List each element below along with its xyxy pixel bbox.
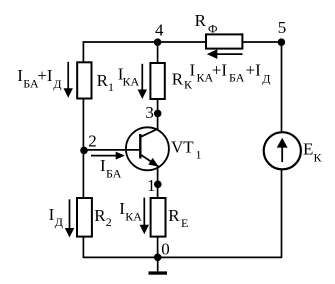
wire bottom rail (node 0 rail) [83,256,281,258]
transistor VT1 [126,127,169,170]
node 4 junction [154,38,162,46]
svg-text:3: 3 [145,103,154,122]
wire middle emitter branch (VT1 emitter through node 1, RE to node 0) [157,167,159,258]
svg-text:0: 0 [161,239,170,258]
svg-text:2: 2 [88,132,97,151]
node 2 junction [80,147,88,155]
resistor R1 [77,62,91,98]
source EK [264,132,301,169]
current arrow I_КА (beside RE) [140,198,149,235]
resistor RE [151,198,166,237]
resistor RФ [206,34,242,48]
current arrow I_Д (beside R2) [65,199,74,237]
wire base lead (node 2 to VT1 base) [84,149,140,151]
node 0 junction [154,253,162,261]
svg-text:4: 4 [155,21,164,40]
ground [149,257,168,274]
wire middle collector branch (node 4 down through RK to VT1 collector) [157,42,159,130]
svg-text:1: 1 [147,176,156,195]
current arrow under RФ (pointing left) [207,49,243,59]
svg-text:5: 5 [278,18,287,37]
current arrow I_КА (beside RK) [138,64,147,99]
wire left branch vertical (through R1, node 2, R2) [82,41,84,258]
node 1 junction [154,181,162,189]
resistor RK [150,63,164,99]
node 3 junction [154,110,162,118]
current arrow I_БА (base lead, pointing right) [91,152,125,160]
current arrow I_БА+I_Д (beside R1) [64,62,73,98]
wire right branch vertical (node 5 through EK source) [281,42,283,258]
resistor R2 [77,198,92,237]
wire top rail (node 4 to node 5 through R_Ф) [83,41,282,43]
node 5 junction [278,38,286,46]
